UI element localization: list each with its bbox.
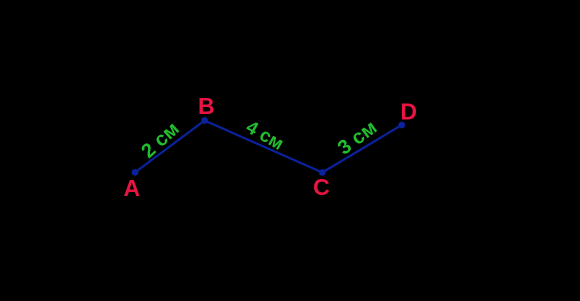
svg-text:B: B (198, 93, 215, 119)
node D dot (398, 122, 405, 129)
node C dot (319, 169, 326, 176)
svg-text:2 см: 2 см (137, 118, 183, 163)
wire segment AB (135, 121, 205, 173)
svg-text:D: D (400, 98, 417, 124)
svg-text:C: C (313, 174, 330, 200)
wire segment CD (322, 125, 401, 173)
node B dot (201, 117, 208, 124)
svg-text:A: A (124, 175, 141, 201)
wire segment BC (205, 121, 323, 173)
svg-text:3 см: 3 см (334, 116, 381, 159)
node A dot (132, 169, 139, 176)
